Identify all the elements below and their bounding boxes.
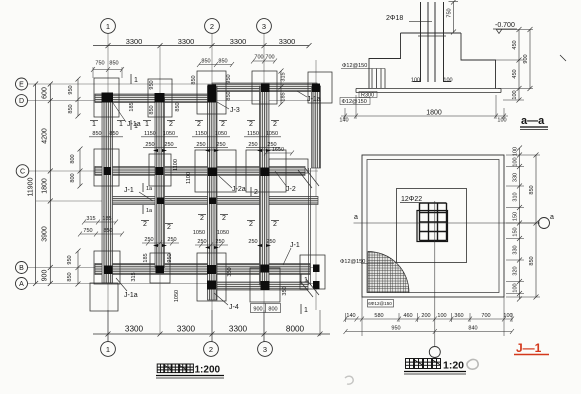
- detail middle square (pedestal): [397, 189, 467, 263]
- leader label J-2a below wall C: [219, 176, 232, 188]
- svg-text:900: 900: [253, 307, 262, 313]
- wall row A right segment: [213, 282, 308, 290]
- svg-text:1:20: 1:20: [443, 360, 464, 372]
- svg-text:C: C: [20, 169, 25, 176]
- pad grid1.5/C: [149, 154, 171, 186]
- pad grid1.5/D: [148, 79, 172, 117]
- top dimension line of plan: [93, 43, 312, 48]
- dim 750/850 row mid-left lower: [78, 232, 124, 237]
- plan title 基础平面图1:200: [157, 364, 193, 373]
- axis bubble D: [16, 95, 28, 107]
- column grid3/E: [261, 84, 270, 93]
- svg-text:12Φ22: 12Φ22: [401, 196, 422, 203]
- pad grid3/E: [252, 71, 277, 104]
- svg-text:1800: 1800: [426, 110, 442, 117]
- svg-text:800: 800: [70, 173, 76, 182]
- leader label J-1a bottom left: [116, 278, 127, 291]
- svg-text:2: 2: [197, 121, 201, 128]
- pad grid2/B-A large: [197, 253, 226, 301]
- column grid1.5/C: [156, 167, 164, 175]
- svg-text:185: 185: [102, 216, 111, 222]
- svg-text:950: 950: [167, 253, 173, 262]
- svg-text:850: 850: [529, 256, 535, 265]
- section bubble bottom: [429, 347, 440, 358]
- detail inner offset square: [367, 160, 499, 293]
- svg-text:950: 950: [67, 255, 73, 264]
- svg-text:1: 1: [106, 345, 110, 354]
- column grid1.5/B: [156, 266, 165, 274]
- centerline vertical: [434, 201, 436, 347]
- grid line B (horizontal axis): [28, 267, 318, 269]
- detail title 基础详图1:20: [406, 359, 441, 369]
- dims 1150 1050 at grid3: [247, 131, 278, 137]
- svg-text:950: 950: [226, 74, 232, 83]
- dims 1150 1050 at grid1.5: [144, 131, 175, 137]
- grid line C' unbubbled (horizontal axis): [36, 200, 318, 202]
- column grid1.5/D: [155, 93, 165, 103]
- leader label J-3 grid2: [217, 102, 229, 109]
- wall row C: [95, 167, 305, 176]
- pad grid1.5/B: [150, 253, 170, 283]
- FOUNDATION PADS (rect outlines): [90, 71, 332, 311]
- svg-text:J-3: J-3: [230, 107, 240, 114]
- svg-text:850: 850: [67, 272, 73, 281]
- svg-text:6Φ12@150: 6Φ12@150: [368, 301, 392, 306]
- svg-text:1050: 1050: [193, 230, 205, 236]
- column grid2/C': [209, 198, 216, 205]
- svg-text:450: 450: [512, 40, 518, 49]
- svg-text:2: 2: [143, 221, 147, 228]
- svg-text:140: 140: [339, 118, 348, 124]
- room section-mark labels row D-C: [92, 121, 277, 128]
- grid line C (horizontal axis): [28, 170, 318, 172]
- svg-text:850: 850: [103, 228, 112, 234]
- svg-text:3300: 3300: [126, 37, 142, 46]
- svg-text:850: 850: [191, 75, 197, 84]
- svg-text:800: 800: [70, 154, 76, 163]
- svg-text:2: 2: [222, 215, 226, 222]
- wall row C': [106, 197, 318, 205]
- svg-text:-0.700: -0.700: [495, 22, 515, 29]
- svg-text:a: a: [550, 214, 554, 221]
- pad J-1a grid1/D: [94, 78, 119, 117]
- svg-text:100: 100: [513, 147, 519, 156]
- wall on grid 1 vertical: [102, 98, 113, 283]
- centerline horizontal a-a: [354, 222, 539, 224]
- svg-text:4200: 4200: [42, 128, 49, 144]
- column outline around cage: [417, 211, 448, 242]
- svg-text:100: 100: [512, 90, 518, 99]
- svg-text:2: 2: [273, 121, 277, 128]
- bottom dim of section 140/1800/100: [341, 95, 508, 119]
- column right edge/B: [313, 265, 320, 273]
- svg-text:800: 800: [268, 307, 277, 313]
- svg-text:850: 850: [226, 91, 232, 100]
- svg-text:1: 1: [92, 121, 96, 128]
- wall on grid 3 vertical: [260, 86, 270, 285]
- svg-text:1: 1: [106, 22, 110, 31]
- svg-text:850: 850: [149, 105, 155, 114]
- svg-text:100: 100: [513, 283, 519, 292]
- svg-text:1: 1: [119, 121, 123, 128]
- svg-text:1a: 1a: [146, 208, 153, 214]
- svg-text:850: 850: [201, 59, 210, 65]
- svg-text:8000: 8000: [286, 325, 305, 334]
- column grid3/C: [261, 168, 270, 177]
- footing outline section: [369, 33, 496, 89]
- svg-text:150: 150: [513, 212, 519, 221]
- left inner dimension chain: [48, 82, 53, 287]
- dim 315/185 row mid-left: [82, 220, 118, 225]
- break lines right end row C: [298, 168, 319, 297]
- leader label J-1a top left pad: [113, 103, 126, 122]
- grid line D (horizontal axis): [28, 100, 310, 102]
- svg-text:250: 250: [167, 237, 176, 243]
- outer right dim 900: [528, 27, 533, 91]
- svg-text:850: 850: [529, 185, 535, 194]
- svg-text:460: 460: [403, 313, 412, 319]
- svg-text:2: 2: [209, 345, 213, 354]
- label R300 box: [359, 92, 377, 98]
- grid line 3 (vertical axis): [263, 34, 265, 342]
- axis bubble 3 top: [257, 19, 272, 34]
- svg-text:950: 950: [149, 80, 155, 89]
- pad grid1/C: [94, 149, 119, 186]
- column grid1/C: [104, 167, 112, 175]
- leader label J-4 bottom: [214, 293, 228, 305]
- svg-text:2: 2: [254, 189, 258, 196]
- svg-text:200: 200: [421, 313, 430, 319]
- svg-text:600: 600: [42, 87, 49, 99]
- svg-text:315: 315: [281, 72, 287, 81]
- watermark swirl near detail title: [467, 359, 478, 369]
- dim 850/950 left of pad grid1 (rotated): [76, 77, 81, 119]
- axis bubble E: [16, 78, 28, 90]
- svg-text:J—1: J—1: [516, 341, 542, 355]
- svg-text:3300: 3300: [177, 325, 196, 334]
- svg-text:700: 700: [481, 313, 490, 319]
- wall row B: [95, 264, 310, 275]
- svg-text:D: D: [19, 98, 24, 105]
- svg-text:185: 185: [129, 102, 135, 111]
- svg-text:185: 185: [281, 92, 287, 101]
- svg-text:1: 1: [145, 121, 149, 128]
- leader label J-1 bottom right: [283, 248, 291, 265]
- svg-text:580: 580: [374, 313, 383, 319]
- column grid2/ED tall: [208, 85, 217, 103]
- wall on grid 2 vertical: [208, 86, 218, 300]
- svg-text:150: 150: [513, 227, 519, 236]
- svg-text:11900: 11900: [28, 177, 35, 196]
- svg-text:850: 850: [109, 131, 118, 137]
- bottom dimension line of plan: [93, 310, 330, 342]
- svg-text:185: 185: [143, 253, 149, 262]
- svg-text:J-1a: J-1a: [307, 96, 321, 103]
- grid line 2 (vertical axis): [211, 34, 213, 342]
- svg-text:Φ12@150: Φ12@150: [342, 63, 367, 69]
- svg-text:J-1: J-1: [290, 242, 300, 249]
- axis bubble C: [16, 165, 29, 178]
- svg-text:850: 850: [92, 131, 101, 137]
- svg-text:J-2a: J-2a: [232, 186, 246, 193]
- svg-text:350: 350: [227, 267, 233, 276]
- svg-text:700: 700: [265, 55, 274, 61]
- svg-text:1100: 1100: [186, 172, 192, 184]
- right edge thin continuation: [309, 168, 311, 285]
- svg-text:330: 330: [513, 245, 519, 254]
- svg-text:250: 250: [145, 142, 154, 148]
- column right edge/E: [312, 84, 320, 93]
- svg-text:850: 850: [109, 61, 118, 67]
- detail outer right dim 850/850: [534, 153, 539, 300]
- svg-text:100: 100: [503, 313, 512, 319]
- svg-text:310: 310: [513, 192, 519, 201]
- svg-text:3300: 3300: [279, 37, 295, 46]
- svg-text:2: 2: [210, 22, 214, 31]
- svg-text:1050: 1050: [163, 131, 175, 137]
- svg-text:840: 840: [468, 326, 477, 332]
- svg-text:850: 850: [68, 104, 74, 113]
- WALLS: [95, 83, 318, 290]
- bedding slab: [356, 89, 501, 93]
- svg-text:250: 250: [164, 142, 173, 148]
- dims 1050/1050 grid2 row C'B: [193, 230, 229, 236]
- pad J-2 right of grid3/C: [269, 159, 308, 173]
- leader label J-2 right: [275, 171, 287, 187]
- dims 850 850 below grid1 room marks: [92, 131, 118, 137]
- leader label J-1a top right: [297, 91, 307, 97]
- svg-text:900: 900: [523, 54, 529, 63]
- svg-text:1050: 1050: [217, 230, 229, 236]
- svg-text:1100: 1100: [173, 159, 179, 171]
- svg-text:950: 950: [391, 326, 400, 332]
- svg-text:100: 100: [411, 78, 420, 84]
- column grid1.5/C': [157, 198, 164, 205]
- dim 950/850 right of pad grid2 top (rotated): [226, 74, 232, 100]
- detail bottom dim chain row1: [344, 297, 515, 336]
- column grid3/B: [261, 265, 270, 273]
- svg-text:J-2: J-2: [286, 186, 296, 193]
- svg-text:850: 850: [218, 59, 227, 65]
- boxed dim 900/800 below grid3 pad: [251, 304, 281, 313]
- wall right edge vertical: [312, 86, 321, 168]
- svg-text:B: B: [19, 265, 24, 272]
- dim 800/800 left of pad grid1/C (rotated): [78, 147, 83, 189]
- svg-text:J-1: J-1: [124, 187, 134, 194]
- bottom dimension labels: [125, 325, 305, 334]
- rebar cage 12phi22: [420, 203, 447, 241]
- grid line between 1 and 2 (vertical axis): [159, 46, 161, 334]
- svg-text:330: 330: [513, 173, 519, 182]
- top dimension labels 3300 x4: [126, 37, 295, 46]
- pad grid1/B: [94, 251, 120, 284]
- axis bubble B: [16, 262, 28, 274]
- svg-text:1: 1: [304, 307, 308, 314]
- svg-text:1050: 1050: [266, 131, 278, 137]
- column grid2/B: [207, 265, 216, 274]
- svg-text:1150: 1150: [247, 131, 259, 137]
- svg-text:100: 100: [497, 118, 506, 124]
- svg-text:2: 2: [273, 221, 277, 228]
- column grid1/D: [102, 93, 114, 103]
- grid line A (horizontal axis): [28, 283, 318, 285]
- svg-text:250: 250: [215, 239, 224, 245]
- dim 750/850 above pad grid1: [91, 67, 124, 78]
- pad grid2/C: [195, 150, 236, 192]
- axis bubble 1 top: [101, 19, 116, 34]
- section cut marks 1 left rooms: [130, 74, 132, 130]
- column right edge/A: [313, 281, 320, 289]
- svg-text:250: 250: [248, 239, 257, 245]
- svg-text:750: 750: [95, 61, 104, 67]
- svg-text:100: 100: [513, 157, 519, 166]
- dim 850/850 above pad grid2: [197, 62, 234, 67]
- svg-text:1650: 1650: [272, 147, 284, 153]
- pad J-1a grid1 bottom: [90, 283, 118, 311]
- svg-text:2: 2: [200, 215, 204, 222]
- COLUMNS (filled): [102, 84, 321, 291]
- svg-text:450: 450: [512, 69, 518, 78]
- solid arrow tick clusters at wall dim anchors: [153, 149, 271, 249]
- rebar verticals 2d18: [413, 2, 452, 82]
- svg-text:100: 100: [437, 313, 446, 319]
- svg-text:250: 250: [266, 239, 275, 245]
- svg-text:2: 2: [249, 221, 253, 228]
- axis bubble 1 bottom: [101, 342, 116, 357]
- svg-text:2: 2: [167, 224, 171, 231]
- svg-text:850: 850: [175, 102, 181, 111]
- room labels 2 row C'-B: [143, 215, 277, 231]
- svg-text:360: 360: [454, 313, 463, 319]
- svg-text:250: 250: [196, 142, 205, 148]
- svg-text:2: 2: [221, 121, 225, 128]
- svg-text:2Φ18: 2Φ18: [386, 15, 403, 22]
- svg-text:3900: 3900: [42, 226, 49, 242]
- svg-text:1: 1: [134, 123, 138, 130]
- boxed label 6phi12@150 bottom of detail: [368, 300, 394, 308]
- svg-text:3300: 3300: [229, 325, 248, 334]
- dim 315/185 right of pad grid3 top (rotated): [281, 72, 287, 101]
- svg-text:900: 900: [42, 270, 49, 282]
- column grid2/C: [208, 168, 217, 177]
- grid line E (horizontal axis): [28, 83, 310, 85]
- axis bubble 3 bottom: [258, 342, 273, 357]
- svg-text:2: 2: [169, 121, 173, 128]
- svg-text:Φ12@150: Φ12@150: [340, 259, 365, 265]
- svg-text:3300: 3300: [230, 37, 246, 46]
- section cut marks 1 right edge: [300, 274, 302, 314]
- detail right dim chain: [506, 146, 540, 302]
- svg-text:950: 950: [68, 85, 74, 94]
- stray tick top right: [560, 55, 566, 61]
- svg-text:A: A: [19, 281, 24, 288]
- svg-text:a: a: [354, 214, 358, 221]
- svg-text:J-4: J-4: [229, 304, 239, 311]
- svg-text:1: 1: [134, 77, 138, 84]
- leader label J-1 mid left: [139, 192, 153, 201]
- svg-text:1050: 1050: [215, 131, 227, 137]
- svg-text:250: 250: [216, 142, 225, 148]
- dim 750 rebar projection: [449, 0, 459, 35]
- svg-text:3: 3: [263, 345, 267, 354]
- svg-text:350: 350: [282, 286, 288, 295]
- grid line 1 (vertical axis): [107, 34, 109, 342]
- right dim chain of section: [462, 27, 533, 103]
- pad grid3/C: [246, 150, 286, 192]
- svg-text:750: 750: [83, 228, 92, 234]
- svg-text:250: 250: [248, 142, 257, 148]
- svg-text:140: 140: [346, 313, 355, 319]
- svg-text:J-1a: J-1a: [124, 292, 138, 299]
- dims 250/250 grid3 row C'B: [248, 239, 275, 245]
- svg-text:315: 315: [131, 272, 137, 281]
- svg-text:1a: 1a: [146, 186, 153, 192]
- svg-text:1:200: 1:200: [195, 365, 221, 376]
- section cut marks 1a mid: [142, 183, 144, 214]
- svg-text:1150: 1150: [144, 131, 156, 137]
- detail bottom dim chain row2: [344, 329, 515, 334]
- detail outer square: [362, 155, 504, 297]
- svg-text:Φ12@150: Φ12@150: [342, 99, 367, 105]
- pad J-3 grid2/ED: [197, 71, 226, 114]
- pad right edge/E: [308, 72, 332, 103]
- svg-text:3300: 3300: [125, 325, 144, 334]
- pad right edge/B: [300, 255, 325, 289]
- svg-text:1050: 1050: [174, 290, 180, 302]
- svg-text:700: 700: [254, 55, 263, 61]
- wall row E right segment: [212, 83, 317, 92]
- svg-text:3: 3: [262, 22, 266, 31]
- wall on grid 1.5 vertical: [155, 98, 165, 268]
- axis bubble 2 bottom: [204, 342, 219, 357]
- section cut mark 2 top mid: [250, 187, 252, 196]
- svg-text:750: 750: [447, 8, 453, 17]
- dim 700/700 above pad grid3: [251, 59, 277, 64]
- svg-text:2: 2: [249, 121, 253, 128]
- column grid3/A: [261, 281, 270, 290]
- section bubble a right: [539, 218, 550, 229]
- svg-text:1800: 1800: [42, 178, 49, 194]
- dim 950/850 left of pad grid1/B (rotated): [76, 249, 81, 287]
- grid line right edge (vertical axis): [315, 60, 317, 310]
- label phi12@150 lower box: [340, 98, 370, 105]
- column grid1/B: [104, 266, 113, 275]
- dims 250/250 grid1.5 row C'B: [144, 237, 176, 243]
- svg-text:315: 315: [86, 216, 95, 222]
- column grid2/A: [207, 281, 216, 290]
- axis bubble 2 top: [205, 19, 220, 34]
- dowel bars phi12@150: [341, 69, 385, 89]
- rebar tie line: [418, 35, 446, 37]
- dims 1150 1050 at grid2: [195, 131, 227, 137]
- svg-text:a—a: a—a: [521, 115, 545, 127]
- svg-text:3300: 3300: [178, 37, 194, 46]
- svg-text:100: 100: [443, 78, 452, 84]
- svg-text:320: 320: [513, 266, 519, 275]
- axis bubble A: [16, 278, 28, 290]
- left outer dimension line 11900: [33, 82, 38, 287]
- wall row D left segment: [95, 94, 213, 103]
- dim 1650 right of grid3/C: [272, 147, 284, 153]
- svg-text:1150: 1150: [195, 131, 207, 137]
- svg-text:E: E: [19, 82, 24, 89]
- pad grid3/A: [250, 268, 280, 302]
- quarter-circle hatched region: [368, 252, 409, 293]
